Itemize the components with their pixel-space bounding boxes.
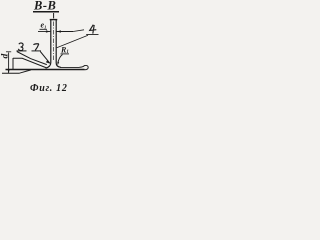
- label 3: [18, 43, 23, 51]
- label 7 underline: [32, 50, 42, 52]
- stem centerline dash-dot: [53, 22, 55, 61]
- leader 3 arrowhead: [46, 60, 50, 63]
- d dimension line: [8, 53, 10, 74]
- label 4 underline: [86, 34, 98, 36]
- label 4: [90, 25, 97, 34]
- svg-text:В-В: В-В: [33, 0, 56, 13]
- leader 4 to stem: [57, 35, 88, 48]
- d arrowhead down: [8, 69, 10, 74]
- e1 dimension line right part: [57, 31, 73, 33]
- label 3 underline: [17, 50, 27, 52]
- right flange nose: [80, 65, 89, 69]
- R1 arrowhead: [57, 62, 59, 66]
- svg-text:Фиг. 12: Фиг. 12: [30, 83, 68, 94]
- stem top cap: [50, 19, 58, 21]
- centerline tick above stem: [53, 13, 55, 18]
- e1 right arrowhead: [56, 30, 61, 32]
- R1 underline: [61, 53, 70, 55]
- e1 underline: [40, 28, 48, 30]
- leader to label 4: [73, 30, 84, 32]
- lower-left base line: [2, 70, 31, 73]
- d label underline tick: [6, 51, 11, 53]
- left flange tip edge: [12, 58, 14, 70]
- leader from 3: [17, 52, 47, 65]
- svg-text:е1: е1: [41, 21, 47, 30]
- right flange top horizontal: [60, 66, 80, 68]
- e1 dimension line left part: [38, 31, 50, 33]
- label 7: [33, 44, 39, 51]
- e1 left arrowhead: [46, 30, 51, 32]
- left flange top slope: [13, 58, 47, 68]
- stem right wall with fillet: [56, 20, 61, 67]
- leader from 7: [40, 52, 50, 64]
- flange bottom line: [6, 69, 85, 71]
- title underline: [33, 11, 59, 13]
- R1 leader curve: [58, 55, 63, 65]
- stem left wall with fillet: [46, 20, 51, 68]
